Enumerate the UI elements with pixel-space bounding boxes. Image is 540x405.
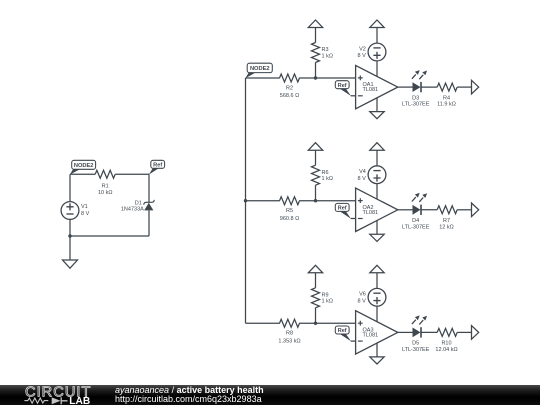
ground	[63, 260, 78, 268]
svg-text:R5: R5	[286, 208, 293, 214]
svg-text:Ref: Ref	[338, 328, 347, 334]
wire (arrow to V6 top)	[376, 273, 378, 289]
svg-text:8 V: 8 V	[81, 211, 90, 217]
svg-text:R1: R1	[102, 183, 109, 189]
op-amp OA1 TL081	[356, 65, 398, 108]
LED D5 LTL-307EE	[402, 315, 430, 353]
power flag (up arrow) above V4	[370, 143, 384, 151]
wire (V6 bottom to op-amp V+ pin)	[376, 306, 378, 322]
wire (R10 to output flag)	[457, 331, 471, 333]
resistor R2 568.6 &#937;	[280, 74, 300, 99]
output port flag (right arrow)	[472, 80, 479, 94]
power flag (down arrow) below op-amp	[370, 234, 384, 241]
wire (op-amp V- pin down)	[376, 220, 378, 234]
svg-text:R3: R3	[322, 47, 329, 53]
flag Ref (at OA3 inverting input)	[335, 326, 351, 341]
wire (D3 to R4)	[421, 86, 437, 88]
wire (V2 bottom to op-amp V+ pin)	[376, 61, 378, 77]
CircuitLab logo	[0, 385, 110, 405]
flag Ref (at OA1 inverting input)	[335, 81, 351, 96]
svg-text:R9: R9	[322, 292, 329, 298]
power flag (up arrow) above R9	[308, 265, 322, 273]
wire NODE2 vertical bus	[245, 78, 247, 323]
svg-text:V4: V4	[359, 169, 366, 175]
output port flag (right arrow)	[472, 203, 479, 217]
footer bar	[0, 385, 540, 405]
resistor R3 1 k&#937;	[312, 43, 333, 63]
power flag (down arrow) below op-amp	[370, 112, 384, 119]
node junction (R2/R3)	[314, 76, 317, 79]
wire (inverting input stub)	[351, 218, 356, 220]
wire (R9 top lead)	[315, 273, 317, 288]
svg-text:Ref: Ref	[153, 162, 162, 168]
resistor R7 12 k&#937;	[437, 206, 457, 231]
power flag (up arrow) above R6	[308, 143, 322, 151]
zener diode D1 1N4733A	[121, 200, 154, 212]
node junction (R5/R6)	[314, 199, 317, 202]
wire (arrow to V4 top)	[376, 150, 378, 166]
voltage source V1 8 V	[61, 202, 89, 220]
wire (bus to R5 left)	[246, 200, 280, 202]
wire (op-amp V- pin down)	[376, 343, 378, 357]
op-amp OA3 TL081	[356, 311, 398, 354]
svg-text:1 kΩ: 1 kΩ	[322, 53, 333, 59]
svg-text:R6: R6	[322, 170, 329, 176]
svg-text:LAB: LAB	[69, 396, 90, 405]
svg-text:8 V: 8 V	[358, 176, 367, 182]
svg-text:10 kΩ: 10 kΩ	[98, 190, 113, 196]
wire (inverting input stub)	[351, 340, 356, 342]
resistor R6 1 k&#937;	[312, 165, 333, 185]
voltage source V2 8 V	[358, 43, 386, 61]
wire (R1 right to top-right corner)	[115, 173, 149, 175]
flag Ref (left circuit net label)	[149, 160, 165, 174]
svg-text:D4: D4	[412, 218, 419, 224]
resistor R10 12.04 k&#937;	[435, 328, 457, 353]
svg-text:R4: R4	[443, 95, 450, 101]
svg-text:D3: D3	[412, 95, 419, 101]
node junction (V1/D1/ground)	[68, 234, 71, 237]
wire (corner down to D1 cathode)	[148, 174, 150, 202]
wire (R5 right to op-amp + input)	[299, 200, 355, 202]
flag NODE2 (bus net label)	[245, 63, 272, 78]
wire (op-amp output to D3)	[398, 86, 413, 88]
power flag (up arrow) above R3	[308, 20, 322, 28]
svg-text:Ref: Ref	[338, 83, 347, 89]
svg-text:960.8 Ω: 960.8 Ω	[280, 216, 299, 222]
voltage source V6 8 V	[358, 288, 386, 306]
svg-text:TL081: TL081	[363, 210, 379, 216]
wire (D1 anode down to bottom wire)	[148, 210, 150, 236]
wire (R8 right to op-amp + input)	[299, 322, 355, 324]
power flag (up arrow) above V6	[370, 265, 384, 273]
wire (bus to R2 left)	[246, 77, 280, 79]
svg-text:R7: R7	[443, 218, 450, 224]
node junction (R8/R9)	[314, 322, 317, 325]
wire (bottom return wire)	[70, 235, 149, 237]
svg-text:NODE2: NODE2	[250, 66, 270, 72]
svg-text:8 V: 8 V	[358, 299, 367, 305]
wire (R6 bottom lead)	[315, 185, 317, 201]
svg-text:LTL-307EE: LTL-307EE	[402, 102, 430, 108]
wire (R3 top lead)	[315, 28, 317, 43]
wire (inverting input stub)	[351, 95, 356, 97]
wire (op-amp output to D5)	[398, 331, 413, 333]
voltage source V4 8 V	[358, 166, 386, 184]
resistor R4 11.9 k&#937;	[437, 83, 457, 108]
svg-text:1 kΩ: 1 kΩ	[322, 176, 333, 182]
wire (NODE2 to R1 left)	[70, 173, 95, 175]
svg-text:1.353 kΩ: 1.353 kΩ	[278, 339, 300, 345]
node junction (bus to stage 2)	[244, 199, 247, 202]
wire (bus to R8 left)	[246, 322, 280, 324]
wire (R3 bottom lead)	[315, 62, 317, 78]
flag NODE2 (left circuit net label)	[70, 160, 96, 174]
op-amp OA2 TL081	[356, 188, 398, 231]
svg-text:LTL-307EE: LTL-307EE	[402, 347, 430, 353]
resistor R5 960.8 &#937;	[280, 197, 300, 222]
wire (D4 to R7)	[421, 209, 437, 211]
svg-text:V2: V2	[359, 46, 366, 52]
resistor R9 1 k&#937;	[312, 288, 333, 308]
wire (V1 - down to junction)	[69, 219, 71, 236]
wire (junction down to ground)	[69, 236, 71, 260]
resistor R1 10 k&#937;	[95, 170, 115, 196]
wire (R2 right to op-amp + input)	[299, 77, 355, 79]
svg-text:TL081: TL081	[363, 333, 379, 339]
svg-text:D5: D5	[412, 341, 419, 347]
wire (R6 top lead)	[315, 150, 317, 165]
wire (D5 to R10)	[421, 331, 437, 333]
svg-text:568.6 Ω: 568.6 Ω	[280, 93, 299, 99]
svg-text:12 kΩ: 12 kΩ	[439, 224, 454, 230]
wire (R9 bottom lead)	[315, 308, 317, 324]
svg-text:NODE2: NODE2	[74, 163, 94, 169]
svg-text:Ref: Ref	[338, 205, 347, 211]
wire (arrow to V2 top)	[376, 28, 378, 44]
footer text	[115, 386, 264, 405]
svg-text:1 kΩ: 1 kΩ	[322, 299, 333, 305]
svg-text:R2: R2	[286, 85, 293, 91]
svg-text:8 V: 8 V	[358, 53, 367, 59]
LED D3 LTL-307EE	[402, 70, 430, 108]
svg-text:TL081: TL081	[363, 87, 379, 93]
wire (op-amp output to D4)	[398, 209, 413, 211]
svg-text:12.04 kΩ: 12.04 kΩ	[435, 347, 457, 353]
svg-text:LTL-307EE: LTL-307EE	[402, 224, 430, 230]
wire (op-amp V- pin down)	[376, 97, 378, 111]
LED D4 LTL-307EE	[402, 193, 430, 231]
wire (NODE2 corner down to V1 +)	[69, 174, 71, 201]
svg-text:R10: R10	[441, 341, 451, 347]
wire (R7 to output flag)	[457, 209, 471, 211]
svg-text:1N4733A: 1N4733A	[121, 206, 144, 212]
power flag (down arrow) below op-amp	[370, 357, 384, 364]
output port flag (right arrow)	[472, 326, 479, 340]
flag Ref (at OA2 inverting input)	[335, 203, 351, 218]
svg-text:V1: V1	[81, 204, 88, 210]
wire (R4 to output flag)	[457, 86, 471, 88]
wire (V4 bottom to op-amp V+ pin)	[376, 184, 378, 200]
resistor R8 1.353 k&#937;	[278, 319, 300, 344]
svg-text:V6: V6	[359, 292, 366, 298]
power flag (up arrow) above V2	[370, 20, 384, 28]
svg-text:11.9 kΩ: 11.9 kΩ	[437, 102, 456, 108]
svg-text:R8: R8	[286, 331, 293, 337]
